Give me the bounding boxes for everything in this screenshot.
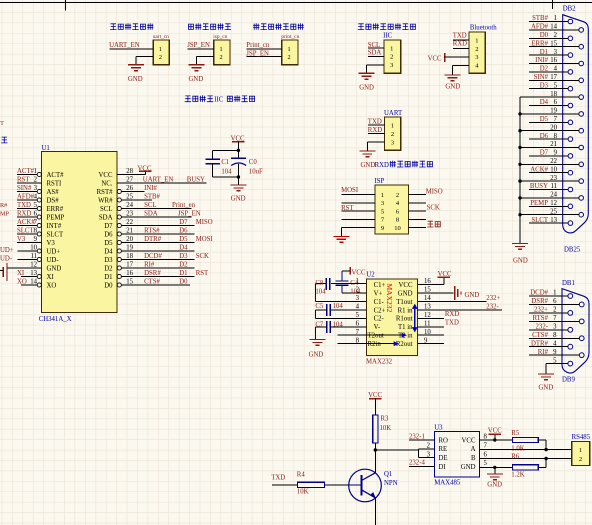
svg-text:2: 2 — [391, 131, 394, 138]
svg-text:10K: 10K — [380, 425, 392, 432]
svg-text:10: 10 — [394, 225, 401, 232]
svg-text:IIC: IIC — [383, 33, 393, 40]
svg-text:7: 7 — [554, 116, 558, 123]
svg-text:C7: C7 — [315, 321, 324, 328]
svg-text:D5: D5 — [104, 240, 113, 247]
svg-text:D2: D2 — [104, 265, 113, 272]
svg-text:DE: DE — [439, 455, 448, 462]
svg-text:5: 5 — [34, 202, 38, 209]
svg-text:8: 8 — [553, 332, 557, 339]
svg-text:20: 20 — [550, 124, 557, 131]
svg-text:2: 2 — [579, 456, 582, 463]
svg-text:RXD: RXD — [445, 311, 459, 318]
svg-text:2: 2 — [287, 54, 290, 61]
svg-text:2: 2 — [554, 32, 558, 39]
svg-text:Bluetooth: Bluetooth — [470, 25, 497, 32]
svg-text:104: 104 — [333, 321, 344, 328]
svg-text:13: 13 — [30, 270, 37, 277]
svg-text:UD-: UD- — [0, 256, 13, 263]
svg-text:V3: V3 — [17, 236, 26, 243]
svg-text:ACT#: ACT# — [17, 168, 35, 175]
svg-text:6: 6 — [553, 298, 557, 305]
svg-text:ERR#: ERR# — [47, 206, 64, 213]
svg-text:6: 6 — [484, 451, 488, 458]
svg-text:U2: U2 — [366, 271, 375, 278]
svg-text:1: 1 — [391, 122, 394, 129]
svg-text:8: 8 — [554, 133, 558, 140]
svg-text:23: 23 — [126, 211, 133, 218]
svg-text:C8: C8 — [315, 280, 324, 287]
svg-text:16: 16 — [550, 57, 557, 64]
svg-text:17: 17 — [550, 74, 557, 81]
svg-text:XI: XI — [17, 270, 25, 277]
svg-text:1: 1 — [381, 192, 384, 199]
svg-text:RST: RST — [196, 270, 209, 277]
svg-text:SCL: SCL — [100, 206, 112, 213]
svg-text:VCC: VCC — [138, 165, 152, 172]
svg-text:3: 3 — [391, 139, 394, 146]
svg-text:2: 2 — [390, 54, 393, 61]
svg-text:R2out: R2out — [396, 341, 413, 348]
svg-text:D0: D0 — [179, 279, 188, 286]
svg-text:D3: D3 — [540, 82, 549, 89]
svg-text:19: 19 — [126, 245, 133, 252]
svg-text:D6: D6 — [104, 231, 113, 238]
svg-text:MAX232: MAX232 — [385, 284, 394, 313]
svg-text:17: 17 — [126, 262, 133, 269]
svg-text:SCK: SCK — [196, 253, 209, 260]
svg-text:STB#: STB# — [144, 194, 160, 201]
svg-text:MOSI: MOSI — [196, 236, 214, 243]
svg-text:1: 1 — [219, 46, 222, 53]
svg-text:VCC: VCC — [438, 271, 452, 278]
svg-text:5: 5 — [381, 209, 384, 216]
svg-text:T1out: T1out — [396, 299, 412, 306]
svg-text:SIN#: SIN# — [534, 74, 549, 81]
svg-text:18: 18 — [126, 253, 133, 260]
svg-text:VCC: VCC — [428, 55, 442, 62]
svg-text:2: 2 — [475, 46, 478, 53]
svg-text:18: 18 — [550, 91, 557, 98]
svg-text:3: 3 — [475, 54, 478, 61]
svg-text:4: 4 — [34, 194, 38, 201]
svg-text:D3: D3 — [179, 253, 188, 260]
svg-text:DSR#: DSR# — [531, 298, 548, 305]
svg-text:INT#: INT# — [47, 223, 62, 230]
svg-text:MISO: MISO — [426, 188, 443, 195]
svg-text:RO: RO — [439, 437, 449, 444]
svg-text:7: 7 — [356, 329, 360, 336]
svg-text:XO: XO — [47, 282, 57, 289]
svg-text:GND: GND — [539, 384, 554, 391]
svg-text:TXD: TXD — [368, 118, 382, 125]
svg-text:JSP_EN: JSP_EN — [178, 211, 201, 218]
svg-text:13: 13 — [550, 217, 557, 224]
svg-text:D2: D2 — [179, 262, 188, 269]
svg-text:9: 9 — [553, 349, 557, 356]
svg-text:D6: D6 — [179, 228, 188, 235]
svg-text:104: 104 — [315, 288, 326, 295]
svg-text:BUSY: BUSY — [187, 177, 205, 184]
svg-text:ACK#: ACK# — [530, 166, 548, 173]
svg-text:1: 1 — [390, 45, 393, 52]
svg-text:D4: D4 — [540, 99, 549, 106]
svg-text:RI#: RI# — [144, 262, 155, 269]
svg-text:SLCT: SLCT — [47, 231, 64, 238]
svg-text:INI#: INI# — [144, 185, 157, 192]
svg-text:R1 in: R1 in — [398, 307, 414, 314]
svg-text:10: 10 — [30, 245, 37, 252]
svg-text:RE: RE — [439, 446, 448, 453]
svg-text:D7: D7 — [540, 150, 549, 157]
svg-text:isp_cn: isp_cn — [213, 34, 227, 40]
svg-text:MOSI: MOSI — [341, 187, 359, 194]
svg-text:R2in: R2in — [368, 341, 382, 348]
svg-text:5: 5 — [554, 82, 558, 89]
svg-text:MAX232: MAX232 — [366, 358, 393, 365]
svg-text:NPN: NPN — [384, 480, 398, 487]
svg-text:VCC: VCC — [99, 172, 113, 179]
svg-text:11: 11 — [550, 183, 557, 190]
svg-text:8: 8 — [356, 337, 360, 344]
svg-text:2: 2 — [159, 54, 162, 61]
svg-text:TXD: TXD — [271, 475, 285, 482]
svg-text:RTS#: RTS# — [144, 228, 160, 235]
svg-text:1: 1 — [34, 168, 37, 175]
svg-text:XI: XI — [47, 274, 55, 281]
svg-text:print_cn: print_cn — [281, 34, 299, 40]
svg-text:SCK: SCK — [427, 204, 440, 211]
svg-text:2: 2 — [427, 443, 431, 450]
svg-text:UART_EN: UART_EN — [109, 42, 140, 49]
svg-text:0T: 0T — [0, 120, 4, 127]
svg-text:GND: GND — [189, 76, 204, 83]
svg-text:GND: GND — [231, 196, 246, 203]
svg-text:14: 14 — [550, 24, 557, 31]
svg-text:GND: GND — [128, 76, 143, 83]
svg-text:V3: V3 — [47, 240, 56, 247]
svg-text:11: 11 — [30, 253, 37, 260]
svg-text:MAX485: MAX485 — [434, 479, 461, 486]
svg-text:R4: R4 — [297, 471, 306, 478]
svg-text:JSP_EN: JSP_EN — [246, 50, 269, 57]
svg-text:25: 25 — [126, 194, 133, 201]
svg-text:3: 3 — [427, 451, 431, 458]
svg-text:XO: XO — [17, 279, 27, 286]
svg-text:3: 3 — [34, 185, 38, 192]
svg-text:5: 5 — [553, 357, 557, 364]
svg-text:UD+: UD+ — [47, 248, 61, 255]
svg-text:RST: RST — [341, 205, 354, 212]
svg-text:D1: D1 — [540, 49, 548, 56]
svg-text:D5: D5 — [540, 116, 549, 123]
svg-text:WR#: WR# — [98, 197, 113, 204]
svg-text:DCD#: DCD# — [144, 253, 162, 260]
svg-text:12: 12 — [550, 200, 557, 207]
svg-text:8: 8 — [34, 228, 38, 235]
svg-text:2: 2 — [34, 177, 38, 184]
svg-text:T2 in: T2 in — [398, 333, 413, 340]
svg-text:R1out: R1out — [396, 316, 413, 323]
svg-text:6: 6 — [34, 211, 38, 218]
svg-text:CTS#: CTS# — [532, 332, 548, 339]
svg-text:15: 15 — [550, 40, 557, 47]
svg-text:DTR#: DTR# — [144, 236, 162, 243]
svg-text:C2-: C2- — [374, 316, 385, 323]
svg-text:D1: D1 — [104, 274, 112, 281]
svg-text:D0: D0 — [104, 282, 113, 289]
svg-text:1: 1 — [287, 46, 290, 53]
svg-text:10: 10 — [550, 166, 557, 173]
svg-text:1: 1 — [554, 15, 557, 22]
svg-text:2: 2 — [396, 192, 399, 199]
svg-text:CTS#: CTS# — [144, 279, 160, 286]
svg-text:7: 7 — [553, 315, 557, 322]
svg-text:SDA: SDA — [368, 50, 382, 57]
svg-text:SLCT: SLCT — [17, 228, 34, 235]
svg-text:1.0K: 1.0K — [511, 445, 524, 452]
svg-text:INI#: INI# — [535, 57, 548, 64]
svg-text:RST#: RST# — [97, 189, 113, 196]
svg-text:25: 25 — [550, 208, 557, 215]
svg-text:DB2: DB2 — [563, 6, 576, 13]
svg-text:AFD#: AFD# — [531, 24, 549, 31]
svg-text:104: 104 — [221, 168, 232, 175]
svg-text:uart_cn: uart_cn — [153, 34, 169, 40]
svg-text:24: 24 — [550, 192, 557, 199]
svg-text:UD+: UD+ — [0, 247, 14, 254]
svg-text:R6: R6 — [511, 453, 520, 460]
svg-text:Q1: Q1 — [384, 471, 392, 478]
svg-text:27: 27 — [126, 177, 133, 184]
svg-text:MP: MP — [0, 211, 10, 218]
svg-text:V-: V- — [374, 324, 381, 331]
svg-text:C5: C5 — [315, 303, 324, 310]
svg-text:SIN#: SIN# — [17, 185, 32, 192]
svg-text:8: 8 — [396, 217, 399, 224]
svg-text:ACT#: ACT# — [47, 172, 65, 179]
svg-text:GND: GND — [359, 84, 374, 91]
svg-text:1: 1 — [475, 37, 478, 44]
svg-text:UART: UART — [384, 110, 403, 117]
svg-text:RI#: RI# — [538, 349, 549, 356]
svg-text:9: 9 — [381, 225, 384, 232]
svg-text:RST: RST — [17, 177, 30, 184]
svg-text:NC.: NC. — [101, 180, 112, 187]
svg-text:C1+: C1+ — [374, 282, 386, 289]
svg-text:3: 3 — [553, 324, 557, 331]
svg-text:10K: 10K — [297, 489, 309, 496]
svg-text:4: 4 — [553, 340, 557, 347]
svg-text:1.2K: 1.2K — [511, 472, 524, 479]
svg-text:D5: D5 — [179, 236, 188, 243]
svg-text:9: 9 — [34, 236, 38, 243]
svg-text:D1: D1 — [179, 270, 187, 277]
svg-text:GND: GND — [487, 481, 502, 488]
svg-text:JSP_EN: JSP_EN — [187, 42, 210, 49]
svg-text:9: 9 — [554, 150, 558, 157]
svg-text:7: 7 — [34, 219, 38, 226]
svg-text:CH341A_X: CH341A_X — [39, 316, 72, 323]
svg-text:TXD: TXD — [453, 33, 467, 40]
svg-text:DCD#: DCD# — [530, 290, 548, 297]
svg-text:232+: 232+ — [534, 307, 548, 314]
svg-text:RXD: RXD — [375, 162, 389, 169]
svg-text:3: 3 — [554, 49, 558, 56]
svg-text:232-: 232- — [486, 303, 499, 310]
svg-text:SDA: SDA — [144, 211, 158, 218]
svg-text:12: 12 — [30, 262, 37, 269]
svg-text:16: 16 — [126, 270, 133, 277]
svg-text:RSTI: RSTI — [47, 180, 62, 187]
svg-text:IIC: IIC — [214, 96, 224, 103]
svg-text:232-4: 232-4 — [409, 460, 425, 467]
svg-text:DB1: DB1 — [562, 280, 575, 287]
svg-text:19: 19 — [550, 108, 557, 115]
svg-text:ACK#: ACK# — [17, 219, 35, 226]
svg-text:UART_EN: UART_EN — [143, 177, 174, 184]
svg-text:STB#: STB# — [532, 15, 548, 22]
svg-text:PEMP: PEMP — [530, 200, 548, 207]
svg-text:26: 26 — [126, 185, 133, 192]
svg-text:T1 in: T1 in — [398, 324, 413, 331]
svg-text:DS#: DS# — [47, 197, 60, 204]
svg-text:AFD#: AFD# — [17, 194, 35, 201]
svg-text:RXD: RXD — [453, 41, 467, 48]
svg-text:2: 2 — [219, 54, 222, 61]
svg-text:PEMP: PEMP — [47, 214, 65, 221]
svg-text:C0: C0 — [249, 159, 258, 166]
svg-text:RXD: RXD — [368, 127, 382, 134]
svg-text:DTR#: DTR# — [531, 340, 549, 347]
svg-text:TXD: TXD — [445, 320, 459, 327]
svg-text:GND: GND — [47, 265, 62, 272]
svg-text:GND: GND — [513, 258, 528, 265]
svg-text:Print_en: Print_en — [172, 202, 196, 209]
svg-text:DI: DI — [439, 464, 447, 471]
svg-text:Print_cn: Print_cn — [246, 42, 270, 49]
svg-text:B: B — [471, 455, 476, 462]
svg-text:C1-: C1- — [374, 299, 385, 306]
svg-text:GND: GND — [461, 464, 476, 471]
svg-text:UD-: UD- — [47, 257, 60, 264]
svg-text:RXD: RXD — [17, 211, 31, 218]
svg-text:C1: C1 — [221, 159, 229, 166]
svg-text:C2+: C2+ — [374, 307, 386, 314]
svg-text:D7: D7 — [104, 223, 113, 230]
svg-text:A: A — [471, 446, 476, 453]
svg-text:SCL: SCL — [144, 202, 156, 209]
svg-text:RS485: RS485 — [572, 434, 591, 441]
svg-text:GND: GND — [398, 290, 413, 297]
svg-text:23: 23 — [550, 175, 557, 182]
svg-text:D7: D7 — [179, 219, 188, 226]
svg-text:14: 14 — [30, 279, 37, 286]
svg-text:2: 2 — [553, 307, 557, 314]
svg-text:AS#: AS# — [47, 189, 60, 196]
svg-text:D4: D4 — [104, 248, 113, 255]
svg-text:U3: U3 — [434, 424, 443, 431]
svg-text:GND: GND — [309, 351, 324, 358]
svg-text:104: 104 — [350, 288, 361, 295]
svg-text:VCC: VCC — [488, 427, 502, 434]
svg-text:10uF: 10uF — [249, 168, 263, 175]
svg-text:ISP: ISP — [375, 178, 385, 185]
svg-text:R3: R3 — [381, 416, 390, 423]
svg-text:BUSY: BUSY — [530, 183, 548, 190]
svg-text:D4: D4 — [179, 245, 188, 252]
svg-text:D3: D3 — [104, 257, 113, 264]
svg-text:R#: R# — [0, 202, 7, 209]
svg-text:R5: R5 — [511, 430, 520, 437]
svg-text:1: 1 — [159, 46, 162, 53]
svg-text:4: 4 — [554, 66, 558, 73]
svg-text:VCC: VCC — [399, 282, 413, 289]
svg-text:GND: GND — [465, 292, 480, 299]
svg-text:232+: 232+ — [486, 295, 500, 302]
svg-text:DB25: DB25 — [564, 246, 581, 253]
svg-text:MISO: MISO — [196, 219, 213, 226]
svg-text:SLCT: SLCT — [531, 217, 548, 224]
svg-text:D2: D2 — [540, 66, 549, 73]
svg-text:ERR#: ERR# — [531, 40, 548, 47]
svg-text:3: 3 — [390, 62, 393, 69]
svg-text:104: 104 — [333, 303, 344, 310]
svg-text:1: 1 — [553, 290, 556, 297]
svg-text:GND: GND — [445, 84, 460, 91]
svg-text:21: 21 — [126, 228, 133, 235]
svg-text:D0: D0 — [540, 32, 549, 39]
svg-text:GND: GND — [361, 162, 376, 169]
svg-text:232-: 232- — [536, 324, 549, 331]
svg-text:20: 20 — [126, 236, 133, 243]
svg-text:SDA: SDA — [99, 214, 113, 221]
svg-text:24: 24 — [126, 202, 133, 209]
svg-text:21: 21 — [550, 141, 557, 148]
svg-text:15: 15 — [126, 279, 133, 286]
svg-text:6: 6 — [554, 99, 558, 106]
svg-text:VCC: VCC — [352, 269, 366, 276]
svg-text:22: 22 — [550, 158, 557, 165]
svg-text:5: 5 — [484, 460, 488, 467]
svg-text:7: 7 — [484, 443, 488, 450]
svg-text:VCC: VCC — [462, 437, 476, 444]
svg-text:DB9: DB9 — [562, 376, 575, 383]
svg-text:RTS#: RTS# — [533, 315, 549, 322]
svg-text:D6: D6 — [540, 133, 549, 140]
svg-text:V+: V+ — [374, 290, 383, 297]
svg-text:28: 28 — [126, 168, 133, 175]
svg-text:TXD: TXD — [17, 202, 31, 209]
svg-text:3: 3 — [381, 200, 384, 207]
svg-text:DSR#: DSR# — [144, 270, 161, 277]
svg-text:T2out: T2out — [368, 333, 384, 340]
svg-text:22: 22 — [126, 219, 133, 226]
svg-text:1: 1 — [579, 447, 582, 454]
